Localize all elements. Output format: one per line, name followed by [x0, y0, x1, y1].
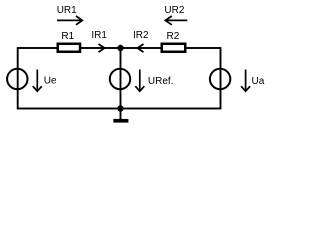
svg-text:UR2: UR2	[164, 5, 184, 16]
svg-text:R1: R1	[61, 31, 74, 42]
arrow URef (voltage arrow down)	[135, 70, 144, 92]
arrow Ue (voltage arrow down)	[33, 70, 42, 92]
svg-text:UR1: UR1	[57, 5, 77, 16]
arrow UR1 (right)	[57, 16, 82, 25]
ground	[113, 119, 128, 123]
source Ue (circle)	[7, 69, 27, 89]
source URef (circle)	[110, 69, 130, 89]
source Ua (circle)	[210, 69, 230, 89]
svg-text:R2: R2	[167, 31, 180, 42]
svg-text:IR1: IR1	[91, 30, 107, 41]
svg-text:Ue: Ue	[44, 75, 57, 86]
arrow IR2 (current chevron left on wire)	[138, 44, 144, 52]
arrow IR1 (current chevron right on wire)	[99, 44, 105, 52]
svg-text:Ua: Ua	[252, 76, 265, 87]
svg-text:URef.: URef.	[148, 76, 174, 87]
resistor R2	[162, 44, 186, 52]
wire: outer loop (top rail, bottom rail, left and right branch wires)	[18, 48, 221, 109]
arrow UR2 (left)	[165, 16, 187, 25]
resistor R1	[58, 44, 80, 52]
node: junction dot bottom (middle branch / bottom rail)	[117, 105, 123, 111]
node: junction dot top (middle branch / top rail)	[117, 45, 123, 51]
arrow Ua (voltage arrow down)	[241, 70, 250, 92]
svg-text:IR2: IR2	[133, 30, 149, 41]
wire: middle branch from top rail down to ground	[120, 48, 122, 120]
